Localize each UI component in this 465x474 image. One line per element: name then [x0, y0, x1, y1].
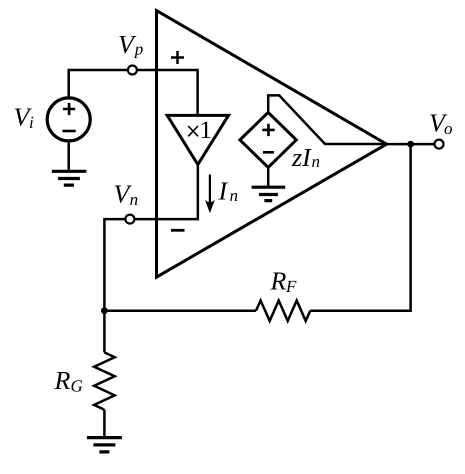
- Vi minus sign: [62, 130, 75, 133]
- wire Vi top to Vp and buffer input: [69, 70, 198, 115]
- svg-text:R: R: [270, 267, 287, 296]
- svg-text:1: 1: [200, 117, 213, 144]
- ground below diamond: [252, 187, 286, 200]
- wire Vo junction down to feedback: [310, 144, 410, 311]
- op-amp outer triangle (CFA body): [157, 11, 387, 278]
- node Vp terminal circle: [128, 66, 137, 75]
- diamond minus sign: [263, 151, 274, 154]
- wire RG to ground: [103, 410, 106, 438]
- ground below RG: [87, 438, 122, 452]
- wire Vi bottom: [67, 140, 70, 171]
- svg-text:F: F: [285, 277, 297, 296]
- svg-text:n: n: [130, 190, 139, 209]
- junction dot at output node: [407, 141, 414, 148]
- label x1: [188, 126, 198, 136]
- svg-text:R: R: [54, 366, 71, 395]
- junction dot at feedback node: [101, 307, 108, 314]
- plus input marker: [171, 51, 184, 64]
- voltage source Vi circle: [47, 98, 90, 141]
- wire buffer output to Vn to junction: [104, 165, 197, 311]
- svg-text:o: o: [444, 119, 453, 138]
- ground below Vi: [52, 171, 87, 185]
- svg-text:I: I: [218, 177, 229, 206]
- wire diamond bottom: [267, 167, 270, 187]
- svg-text:n: n: [230, 186, 239, 205]
- Vi plus sign: [63, 103, 75, 115]
- current arrow In: [209, 175, 211, 206]
- svg-text:i: i: [29, 113, 34, 132]
- wire feedback left segment: [104, 309, 256, 312]
- wire diamond top to output vertex: [268, 95, 386, 144]
- resistor RG zigzag: [94, 352, 115, 409]
- svg-text:zI: zI: [291, 143, 312, 172]
- wire output to Vo: [387, 143, 439, 146]
- buffer x1 triangle: [167, 115, 228, 164]
- svg-text:p: p: [134, 40, 144, 59]
- dependent source zIn diamond: [240, 112, 296, 167]
- resistor RF zigzag: [256, 301, 310, 321]
- svg-text:n: n: [312, 152, 321, 171]
- wire junction down to RG: [103, 311, 106, 353]
- node Vn terminal circle: [125, 215, 134, 224]
- node Vo terminal circle: [435, 140, 444, 149]
- svg-text:G: G: [71, 377, 83, 396]
- minus input marker: [171, 229, 185, 232]
- diamond plus sign: [262, 124, 274, 136]
